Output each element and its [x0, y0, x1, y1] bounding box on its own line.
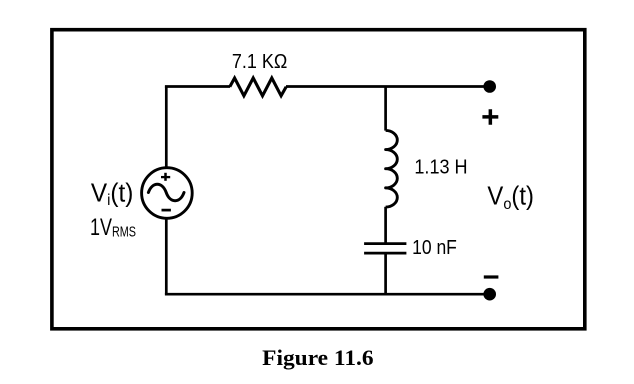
- label 1V RMS: [90, 214, 136, 241]
- svg-text:1.13 H: 1.13 H: [414, 157, 467, 179]
- svg-text:Figure 11.6: Figure 11.6: [262, 345, 374, 370]
- wire: middle branch between L and C: [384, 207, 387, 244]
- wire: middle branch top: [384, 87, 387, 131]
- wire: middle branch bottom: [384, 253, 387, 294]
- terminal node - (bottom right): [483, 288, 496, 301]
- wire: top rail left segment: [165, 85, 230, 88]
- svg-text:Vi(t): Vi(t): [91, 180, 133, 210]
- resistor R1 7.1 KOhm: [230, 78, 286, 96]
- svg-text:7.1 KΩ: 7.1 KΩ: [232, 51, 287, 73]
- label Vi(t): [91, 180, 133, 210]
- label 7.1 KOhm: [232, 51, 287, 73]
- wire: left branch lower vertical: [165, 219, 168, 294]
- inductor L1 1.13 H: [386, 130, 398, 207]
- label Vo(t): [487, 183, 534, 213]
- output plus marker: [482, 109, 498, 125]
- terminal node + (top right): [483, 80, 496, 93]
- wire: left branch upper vertical: [165, 87, 168, 168]
- svg-text:Vo(t): Vo(t): [487, 183, 534, 213]
- wire: bottom rail: [165, 293, 490, 296]
- label 1.13 H: [414, 157, 467, 179]
- output minus marker: [484, 275, 499, 278]
- svg-text:1VRMS: 1VRMS: [90, 214, 136, 241]
- label 10 nF: [412, 237, 457, 259]
- wire: top rail right segment: [286, 85, 490, 88]
- caption Figure 11.6: [262, 345, 374, 370]
- voltage source V1 (AC): [142, 168, 193, 219]
- capacitor C1 10 nF: [364, 244, 406, 254]
- svg-text:10 nF: 10 nF: [412, 237, 457, 259]
